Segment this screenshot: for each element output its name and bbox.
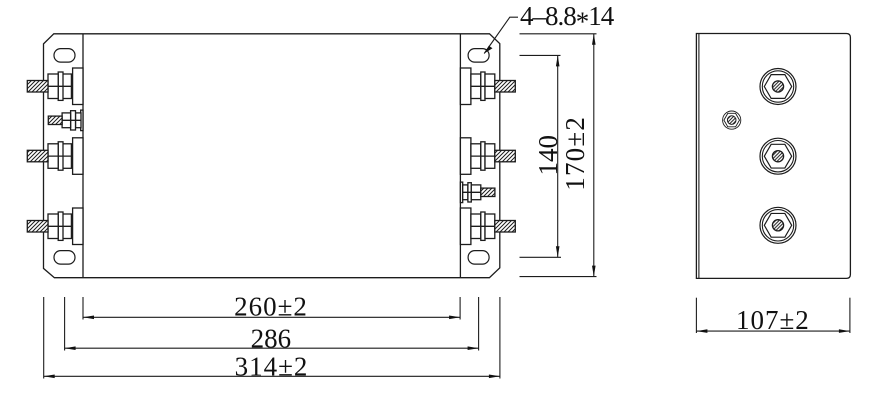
front view body right edge bbox=[459, 34, 461, 278]
dim 107 dimension line bbox=[696, 330, 850, 332]
dim 286 extension line left bbox=[64, 297, 66, 351]
dim 140 arrow down bbox=[556, 246, 560, 257]
dim 170 extension line bottom bbox=[520, 276, 597, 278]
right terminal row A (large) bbox=[460, 68, 515, 105]
front view mounting flange plate outline bbox=[44, 34, 500, 278]
front view body left edge bbox=[82, 34, 84, 278]
side terminal 2 stud end bbox=[772, 151, 783, 162]
dim 286 arrow right bbox=[468, 346, 479, 350]
side terminal 1 outer circle bbox=[760, 69, 796, 105]
dim 170 extension line top bbox=[520, 33, 597, 35]
side terminal 1 stud end bbox=[772, 81, 783, 92]
side terminal 2 hex nut bbox=[764, 144, 791, 168]
mounting slot hole top-left bbox=[54, 49, 75, 63]
dim 314 arrow left bbox=[44, 375, 55, 379]
side small terminal stud end bbox=[727, 116, 736, 125]
dim 260 arrow right bbox=[449, 316, 460, 320]
left terminal row C (large) bbox=[27, 138, 83, 175]
leader line for hole callout bbox=[484, 17, 518, 53]
left terminal row E (large) bbox=[27, 208, 83, 245]
mounting slot hole top-right bbox=[468, 49, 489, 63]
dim 107 arrow left bbox=[696, 329, 707, 333]
dim 260 arrow left bbox=[83, 316, 94, 320]
dim 260 extension line right bbox=[459, 297, 461, 320]
left terminal row A (large) bbox=[27, 68, 83, 105]
dim 286 extension line right bbox=[478, 297, 480, 351]
right terminal row D (small) bbox=[460, 182, 495, 203]
side terminal 3 stud end bbox=[772, 220, 783, 231]
dim 170 dimension line bbox=[593, 34, 595, 277]
dim 286 dimension line bbox=[65, 347, 479, 349]
dim 140 extension line bottom bbox=[520, 256, 562, 258]
dim 170 arrow up bbox=[592, 34, 596, 45]
svg-text:140: 140 bbox=[533, 135, 563, 176]
side terminal 3 hex nut bbox=[764, 213, 791, 237]
svg-text:286: 286 bbox=[251, 324, 292, 354]
side terminal 2 outer circle bbox=[760, 138, 796, 174]
side small terminal hex nut bbox=[724, 113, 740, 127]
dim 140 arrow up bbox=[556, 55, 560, 66]
dim 170 arrow down bbox=[592, 266, 596, 277]
dim 286 arrow left bbox=[65, 346, 76, 350]
dim 314 extension line right bbox=[499, 297, 501, 379]
dim 314 extension line left bbox=[43, 297, 45, 379]
svg-text:170±2: 170±2 bbox=[560, 116, 590, 191]
leader arrowhead bbox=[484, 46, 492, 54]
side terminal 3 outer circle bbox=[760, 207, 796, 243]
side terminal 3 washer circle bbox=[762, 210, 793, 241]
dim 140 extension line top bbox=[520, 54, 561, 56]
dim 314 arrow right bbox=[489, 375, 500, 379]
mounting slot hole bottom-right bbox=[468, 251, 489, 265]
dim 140 dimension line bbox=[557, 55, 559, 257]
svg-text:107±2: 107±2 bbox=[736, 305, 810, 335]
dim 107 extension line left bbox=[695, 298, 697, 333]
mounting slot hole bottom-left bbox=[54, 251, 75, 265]
side view body outline bbox=[696, 34, 850, 279]
dim 107 arrow right bbox=[839, 329, 850, 333]
dim 260 extension line left bbox=[82, 297, 84, 320]
svg-text:314±2: 314±2 bbox=[235, 352, 309, 382]
left terminal row B (small) bbox=[48, 110, 83, 131]
side terminal 1 washer circle bbox=[762, 71, 793, 102]
side terminal 1 hex nut bbox=[764, 75, 791, 99]
side terminal 2 washer circle bbox=[762, 141, 793, 172]
dim 107 extension line right bbox=[849, 298, 851, 333]
right terminal row E (large) bbox=[460, 208, 515, 245]
dim 314 dimension line bbox=[44, 375, 500, 377]
dim 260 dimension line bbox=[83, 316, 460, 318]
side small terminal outer circle bbox=[723, 111, 741, 129]
side view flange edge line bbox=[698, 34, 700, 279]
svg-text:260±2: 260±2 bbox=[234, 291, 308, 321]
right terminal row C (large) bbox=[460, 138, 515, 175]
